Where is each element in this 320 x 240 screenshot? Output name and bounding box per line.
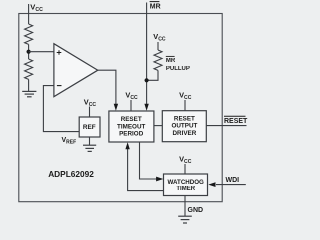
svg-text:OUTPUT: OUTPUT xyxy=(171,123,197,130)
arrow into reset timeout (from MR) xyxy=(144,104,148,111)
svg-text:WATCHDOG: WATCHDOG xyxy=(168,179,205,186)
wire VCC down to divider xyxy=(28,4,30,24)
wire comparator - input to VREF xyxy=(43,86,79,132)
svg-text:TIMEOUT: TIMEOUT xyxy=(117,123,145,130)
svg-text:RESET: RESET xyxy=(224,118,248,125)
wire MR line down to reset timeout xyxy=(146,3,148,105)
block RESET OUTPUT DRIVER xyxy=(162,111,206,142)
svg-text:RESET: RESET xyxy=(174,115,195,122)
wire VCC into watchdog xyxy=(184,164,186,174)
wire R2 to ground xyxy=(28,79,30,91)
wire VCC into reset timeout xyxy=(130,100,132,111)
arrow into watchdog left xyxy=(156,177,163,182)
node A junction dot xyxy=(27,50,31,54)
wire reset timeout to watchdog (down then right) xyxy=(140,142,157,179)
arrow into reset timeout bottom xyxy=(125,142,129,149)
op-amp U1 (comparator) xyxy=(54,44,98,97)
resistor R2 (lower divider) xyxy=(25,59,33,79)
ground (GND pin) xyxy=(178,216,192,223)
junction dot on MR line xyxy=(145,78,149,82)
svg-text:MR: MR xyxy=(150,4,161,11)
wire comparator output to reset timeout block xyxy=(98,70,116,104)
pin + xyxy=(57,50,62,55)
wire WDI into watchdog xyxy=(216,184,246,186)
svg-text:PULLUP: PULLUP xyxy=(166,66,190,72)
wire pullup to MR line xyxy=(147,70,158,80)
svg-text:RESET: RESET xyxy=(121,116,142,123)
arrow into reset timeout (from comparator) xyxy=(114,104,118,111)
block WATCHDOG TIMER xyxy=(164,174,208,196)
block RESET TIMEOUT PERIOD xyxy=(109,111,154,142)
IC outer boundary box xyxy=(19,14,222,202)
svg-text:ADPL62092: ADPL62092 xyxy=(48,169,94,179)
wire watchdog to GND xyxy=(184,196,186,217)
svg-text:TIMER: TIMER xyxy=(176,186,195,192)
ground (REF) xyxy=(83,145,96,151)
svg-text:GND: GND xyxy=(188,207,204,214)
wire VCC to pullup xyxy=(157,42,159,50)
voltage reference REF xyxy=(79,117,100,137)
wire VCC to REF xyxy=(89,107,91,118)
svg-text:PERIOD: PERIOD xyxy=(119,131,144,138)
wire reset output driver to RESET pin xyxy=(206,125,246,127)
wire REF to ground xyxy=(89,137,91,145)
pin - xyxy=(57,85,62,87)
wire reset timeout to reset output driver xyxy=(154,125,162,127)
svg-text:DRIVER: DRIVER xyxy=(173,130,197,137)
wire watchdog feedback to reset timeout (left then up) xyxy=(128,149,164,191)
svg-text:MR: MR xyxy=(166,58,176,64)
resistor R1 (upper divider) xyxy=(25,24,33,44)
resistor MR PULLUP xyxy=(154,50,162,70)
svg-text:REF: REF xyxy=(83,124,96,131)
wire VCC into reset output driver xyxy=(184,100,186,111)
wire R1 to node A xyxy=(28,44,30,59)
arrow into watchdog right (WDI) xyxy=(208,182,215,187)
ground (divider) xyxy=(22,91,36,96)
svg-text:WDI: WDI xyxy=(226,177,240,184)
wire node A to comparator + input xyxy=(29,51,54,53)
